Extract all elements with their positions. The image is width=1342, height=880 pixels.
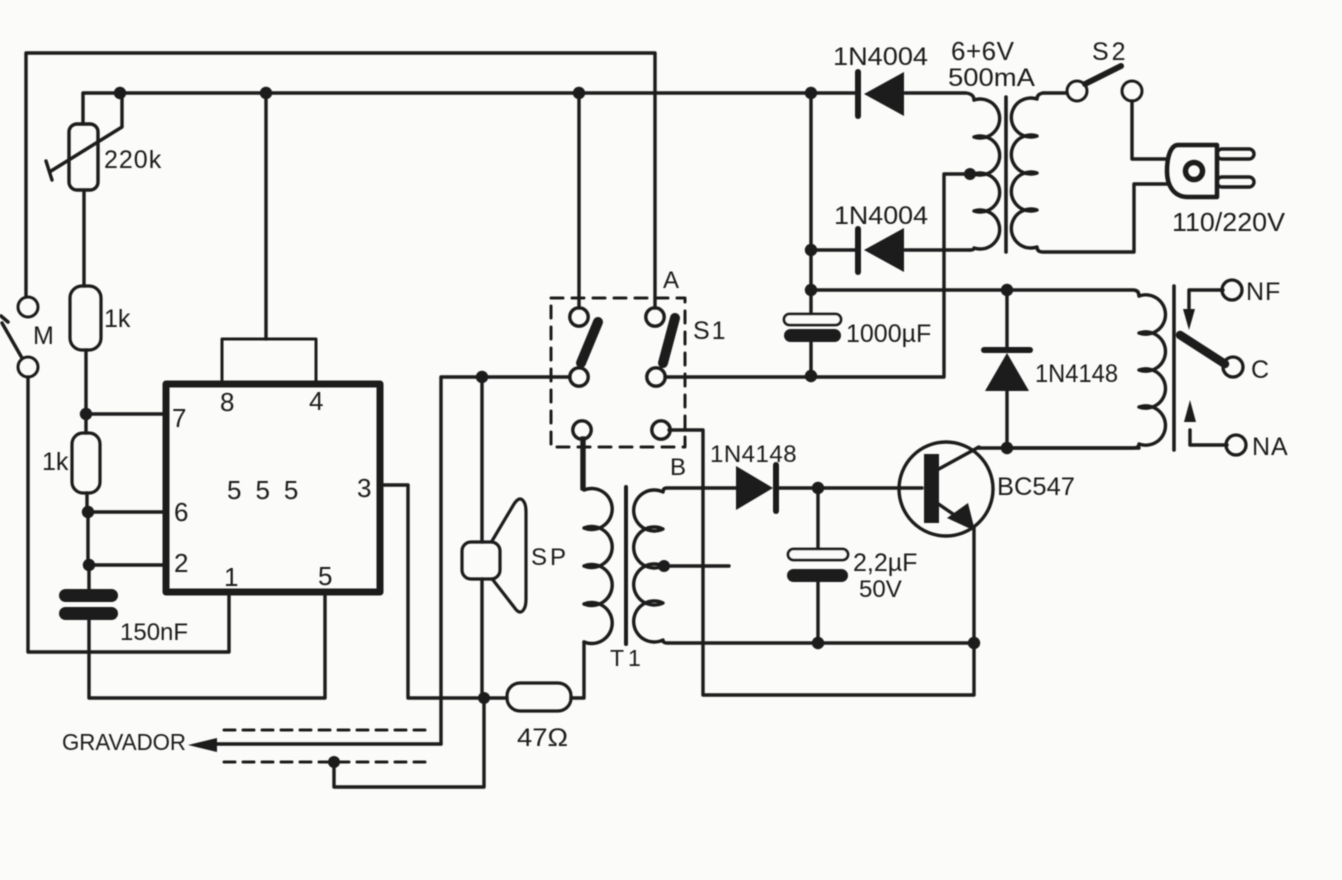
- switch S2 contact left: [1067, 81, 1087, 101]
- junction 555 pin 8-4 / vcc rail: [260, 87, 272, 99]
- mains plug body: [1167, 145, 1217, 197]
- wire T2 center tap: [944, 174, 970, 376]
- wire R2 to R3: [84, 414, 87, 433]
- switch S2 contact right: [1122, 81, 1142, 101]
- wire pin 2: [89, 563, 166, 566]
- S1 contact top-right A: [646, 308, 664, 326]
- S1 lever right: [663, 318, 675, 363]
- S1 contact mid-left: [570, 368, 588, 386]
- S1 contact mid-right: [647, 368, 665, 386]
- svg-text:3: 3: [357, 473, 371, 503]
- speaker SP cone: [492, 499, 526, 612]
- plug circle: [1186, 163, 1203, 180]
- wire pin 7: [86, 412, 166, 415]
- plug prong lower: [1217, 177, 1254, 187]
- wire pot to R2: [82, 192, 85, 286]
- capacitor C1 150nF plates: [59, 589, 118, 602]
- svg-text:5: 5: [318, 561, 332, 591]
- wire M to pin1: [28, 377, 229, 652]
- gravador arrowhead: [188, 738, 217, 752]
- speaker SP wire lower: [480, 579, 483, 698]
- wire collector rail: [977, 446, 1139, 449]
- junction S1 top-left / vcc rail: [573, 87, 585, 99]
- wire C2 bottom: [809, 342, 812, 376]
- wire pin6 to pin2 node: [86, 512, 89, 565]
- switch M contact bottom: [18, 357, 38, 377]
- svg-text:1k: 1k: [42, 448, 69, 476]
- transformer T1 secondary coil: [634, 488, 974, 643]
- capacitor C3 2.2uF: [816, 488, 819, 549]
- 555 top notch: [222, 339, 316, 384]
- junction pot wiper / vcc rail: [114, 87, 126, 99]
- svg-text:6: 6: [174, 497, 188, 527]
- svg-text:1N4004: 1N4004: [834, 202, 928, 230]
- speaker SP wire upper: [480, 377, 483, 542]
- svg-text:8: 8: [220, 387, 234, 417]
- node T2 center tap: [964, 168, 976, 180]
- svg-text:7: 7: [172, 403, 186, 433]
- diode D4 1N4148 horizontal: [736, 466, 773, 510]
- wire R2 to pin7 node: [84, 350, 87, 414]
- junction pin 6 node: [82, 506, 94, 518]
- transformer T1 primary coil: [584, 438, 612, 644]
- junction C2 bottom / common: [805, 370, 817, 382]
- op-amp U1 555 body: [166, 384, 380, 592]
- svg-text:NA: NA: [1252, 433, 1289, 461]
- svg-text:1N4004: 1N4004: [833, 43, 928, 71]
- relay core: [1172, 286, 1176, 450]
- resistor R4 47ohm: [484, 696, 507, 699]
- wire pin 3 output: [380, 485, 484, 698]
- Q1 collector: [937, 447, 979, 470]
- Q1 emitter: [937, 503, 966, 523]
- svg-text:555: 555: [227, 475, 312, 505]
- svg-text:S2: S2: [1092, 38, 1129, 66]
- wire vcc to S1 top-left: [577, 93, 580, 308]
- S1 contact bot-right B: [652, 421, 670, 439]
- svg-text:A: A: [663, 267, 679, 294]
- svg-text:S1: S1: [693, 317, 728, 345]
- svg-text:47Ω: 47Ω: [517, 724, 568, 752]
- svg-text:2,2µF: 2,2µF: [853, 549, 917, 577]
- transformer T1 core: [624, 487, 628, 644]
- switch S2 lever: [1085, 66, 1121, 84]
- svg-text:110/220V: 110/220V: [1172, 207, 1286, 237]
- wire S1 mid-right to supply common: [665, 375, 944, 378]
- svg-text:M: M: [33, 322, 54, 350]
- wire gravador tap: [334, 698, 484, 787]
- wire vcc to notch: [264, 93, 267, 339]
- wire pin 6: [88, 510, 166, 513]
- junction pin 7 node: [80, 408, 92, 420]
- speaker SP box: [462, 542, 500, 579]
- svg-text:500mA: 500mA: [948, 64, 1035, 92]
- wire T2 primary top to S2: [1043, 91, 1067, 94]
- svg-text:B: B: [670, 454, 686, 481]
- capacitor C2 1000uF top plate: [784, 314, 841, 325]
- junction SP top node: [476, 371, 488, 383]
- svg-text:1N4148: 1N4148: [710, 441, 797, 468]
- junction emitter node: [968, 637, 980, 649]
- diode D3 1N4148 vertical: [1005, 290, 1008, 347]
- wire D2: [811, 248, 970, 251]
- svg-text:150nF: 150nF: [120, 619, 188, 646]
- wire pin2 node to capacitor: [87, 565, 90, 589]
- junction gravador tap: [328, 756, 340, 768]
- relay contact C: [1223, 357, 1243, 377]
- junction pin 2 node: [83, 559, 95, 571]
- capacitor C2 1000uF bottom plate: [784, 329, 841, 342]
- switch M contact top: [18, 297, 38, 317]
- relay contact NF: [1222, 280, 1242, 300]
- S1 lever left: [581, 322, 598, 363]
- resistor R2 1k body: [70, 286, 101, 350]
- gravador dashed upper: [224, 729, 433, 732]
- junction D2 node: [805, 244, 817, 256]
- wire +V relay rail: [811, 290, 1139, 296]
- switch M lever: [1, 316, 22, 358]
- gravador dashed lower: [224, 761, 433, 764]
- switch S1 dashed box: [551, 298, 685, 447]
- junction SP bottom / 47ohm node: [478, 692, 490, 704]
- wire S2 to plug: [1132, 101, 1168, 159]
- svg-text:1000µF: 1000µF: [846, 320, 931, 348]
- svg-text:220k: 220k: [104, 146, 162, 174]
- svg-text:2: 2: [174, 548, 188, 578]
- junction +V rail left: [805, 284, 817, 296]
- S1 contact top-left: [570, 308, 588, 326]
- relay coil: [1007, 295, 1165, 448]
- wire S1 mid-left to node: [441, 377, 570, 744]
- diode D1 1N4004 top: [855, 72, 861, 116]
- T1 center tap stub: [664, 564, 729, 567]
- potentiometer wiper arm: [46, 95, 122, 180]
- svg-text:1N4148: 1N4148: [1035, 360, 1118, 388]
- wire S1 bot-right B down: [669, 430, 974, 695]
- transformer T2 core: [1004, 97, 1008, 252]
- relay armature: [1180, 335, 1225, 364]
- junction D3 anode / collector rail: [1001, 442, 1013, 454]
- svg-text:4: 4: [309, 386, 323, 416]
- wire vcc rail: [83, 93, 858, 124]
- S1 contact bot-left: [573, 421, 591, 439]
- svg-text:BC547: BC547: [997, 473, 1075, 501]
- svg-text:C: C: [1251, 356, 1269, 384]
- svg-text:NF: NF: [1246, 278, 1281, 306]
- resistor R3 1k body: [72, 433, 100, 493]
- wire +V vertical: [809, 93, 812, 314]
- svg-text:6+6V: 6+6V: [951, 36, 1015, 66]
- Q1 base bar: [924, 454, 939, 523]
- wire C1 to pin 5: [89, 592, 325, 698]
- potentiometer R1 220k body: [69, 124, 98, 190]
- transistor Q1 BC547 circle: [899, 442, 993, 536]
- transformer T2 secondary coil: [970, 99, 1000, 250]
- junction D1 / vcc rail: [805, 87, 817, 99]
- junction D3 cathode / +V rail: [1001, 284, 1013, 296]
- junction D4 / C3 / base node: [812, 482, 824, 494]
- wire S1 bot-left to T1: [580, 438, 583, 489]
- junction C3 bottom node: [812, 637, 824, 649]
- svg-text:1k: 1k: [104, 305, 131, 333]
- svg-text:SP: SP: [531, 544, 569, 571]
- node T1 center tap: [658, 560, 670, 572]
- wire R3 to pin6 node: [85, 493, 88, 512]
- svg-text:T1: T1: [610, 645, 645, 671]
- wire top rail: [26, 53, 655, 308]
- svg-text:50V: 50V: [859, 576, 902, 603]
- plug prong upper: [1217, 149, 1254, 159]
- svg-text:1: 1: [224, 562, 238, 592]
- gravador arrow line: [216, 742, 441, 745]
- transformer T2 primary coil: [1011, 93, 1168, 252]
- diode D2 1N4004 bottom: [855, 229, 861, 272]
- relay contact NA: [1226, 435, 1246, 455]
- svg-text:GRAVADOR: GRAVADOR: [62, 729, 186, 755]
